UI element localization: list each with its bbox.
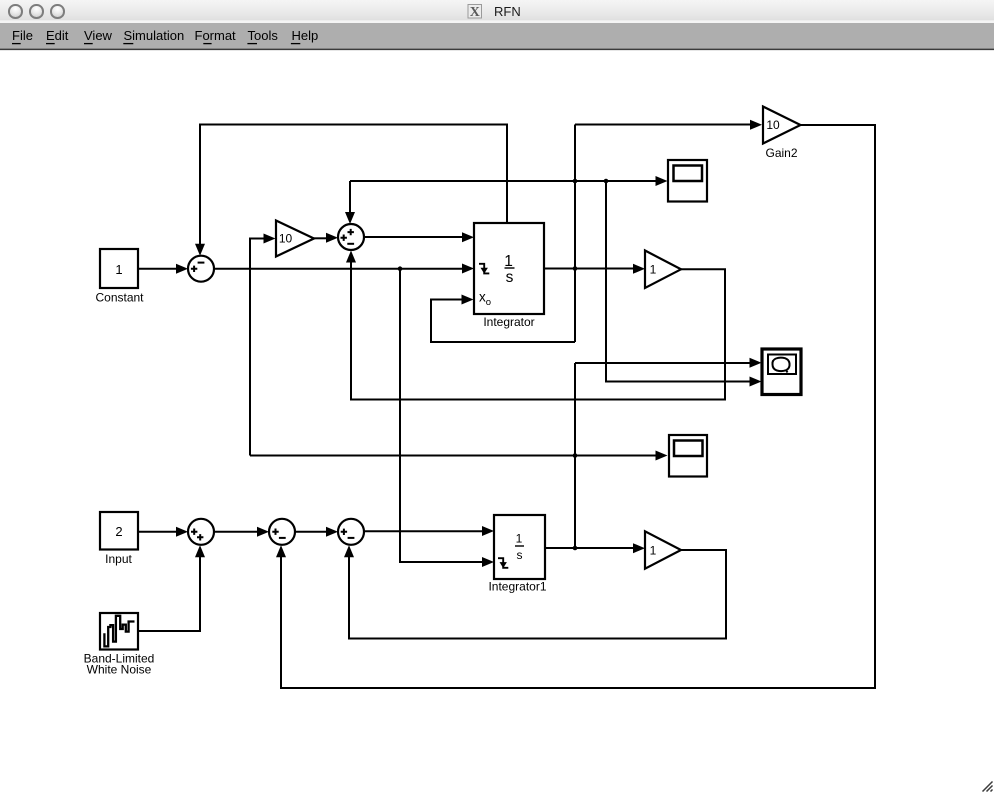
wire Sum2 output to Integrator port1 bbox=[364, 232, 474, 242]
window icon X bbox=[468, 5, 482, 21]
wire Integrator1 output to Gain3 bbox=[545, 543, 645, 553]
net x575 vertical lower segment bbox=[574, 363, 576, 548]
block Band-Limited White Noise bbox=[84, 613, 155, 676]
svg-text:White Noise: White Noise bbox=[87, 662, 152, 676]
sum S1 bbox=[188, 256, 214, 282]
menu Help bbox=[291, 28, 318, 44]
svg-text:Constant: Constant bbox=[95, 291, 144, 305]
wire Gain3 output loop to Sum6 south bbox=[344, 545, 726, 638]
window title bar bbox=[0, 0, 994, 23]
svg-text:o: o bbox=[486, 297, 491, 308]
wire Constant to Sum1 bbox=[138, 264, 188, 274]
svg-text:Gain2: Gain2 bbox=[765, 146, 797, 160]
block Integrator U1 bbox=[474, 223, 544, 329]
wire Input to Sum4 bbox=[138, 527, 188, 537]
wire Band-Limited White Noise to Sum4 south bbox=[138, 545, 205, 631]
junction dot Sum1 output at x400 bbox=[398, 266, 403, 271]
menu Simulation bbox=[123, 28, 184, 44]
block Constant bbox=[95, 249, 144, 305]
svg-text:X: X bbox=[470, 5, 480, 20]
block Integrator1 U2 bbox=[488, 515, 546, 594]
wire x575 bottom to Integrator x0 port bbox=[431, 295, 575, 343]
junction dot y181 at x575 bbox=[573, 179, 578, 184]
wire Sum6 to Integrator1 port1 bbox=[364, 526, 494, 536]
wire from y455 net up to Gain input bbox=[250, 234, 276, 456]
wire Sum2 north input from y181 net bbox=[345, 181, 355, 224]
scope Scope2 bbox=[669, 435, 707, 477]
svg-text:Integrator1: Integrator1 bbox=[488, 580, 546, 594]
wire y181 net to Scope1 bbox=[350, 176, 668, 186]
sum S5 bbox=[269, 519, 295, 545]
scope Scope1 bbox=[668, 160, 707, 202]
svg-text:Edit: Edit bbox=[46, 28, 69, 43]
svg-text:Input: Input bbox=[105, 552, 132, 566]
wire x606 down to XY Graph input2 bbox=[606, 181, 762, 387]
svg-text:10: 10 bbox=[279, 232, 293, 246]
svg-text:View: View bbox=[84, 28, 113, 43]
wire Sum5 to Sum6 bbox=[295, 527, 338, 537]
svg-text:Help: Help bbox=[292, 28, 319, 43]
gain G2 value 1 (middle) bbox=[645, 251, 681, 289]
menu bar bbox=[0, 23, 994, 49]
wire branch x400 down to Integrator1 port2 bbox=[400, 269, 494, 567]
svg-text:1: 1 bbox=[650, 543, 657, 557]
menu Format bbox=[195, 28, 237, 44]
svg-text:Simulation: Simulation bbox=[124, 28, 185, 43]
wire x575 top to Gain2 bbox=[575, 120, 762, 130]
svg-text:Format: Format bbox=[195, 28, 237, 43]
svg-text:Tools: Tools bbox=[248, 28, 279, 43]
svg-text:1: 1 bbox=[115, 262, 122, 277]
sum S6 bbox=[338, 519, 364, 545]
gain Gain2 value 10 bbox=[763, 107, 801, 161]
sum S2 bbox=[338, 224, 364, 250]
svg-text:1: 1 bbox=[650, 263, 657, 277]
menu View bbox=[84, 28, 113, 44]
wire Integrator state port to Sum1 north bbox=[195, 125, 507, 256]
wire y455 net to Scope2 bbox=[250, 451, 668, 461]
menubar bottom border bbox=[0, 48, 994, 50]
resize grip bbox=[983, 782, 993, 792]
sum S4 bbox=[188, 519, 214, 545]
svg-text:1: 1 bbox=[516, 532, 523, 546]
svg-text:Integrator: Integrator bbox=[483, 315, 534, 329]
net x575 vertical upper segment bbox=[574, 125, 576, 343]
junction dot Integrator1 output at x575 bbox=[573, 546, 578, 551]
block Input constant 2 bbox=[100, 512, 138, 566]
svg-text:10: 10 bbox=[766, 118, 780, 132]
svg-text:s: s bbox=[517, 548, 523, 562]
menu Tools bbox=[247, 28, 278, 44]
svg-text:File: File bbox=[12, 28, 33, 43]
svg-text:RFN: RFN bbox=[494, 4, 521, 19]
wire Integrator output to Gain1 bbox=[544, 264, 645, 274]
svg-text:1: 1 bbox=[504, 253, 513, 270]
junction dot y181 at x606 bbox=[604, 179, 609, 184]
wire Gain to Sum2 bbox=[314, 233, 339, 243]
svg-text:2: 2 bbox=[115, 524, 122, 539]
wire x575 lower net to XY Graph input1 bbox=[575, 358, 762, 368]
gain G3 value 1 (lower) bbox=[645, 531, 681, 568]
block XY Graph bbox=[762, 349, 801, 395]
junction dot Integrator output at x575 bbox=[573, 266, 578, 271]
junction dot y455 at x575 bbox=[573, 453, 578, 458]
wire Gain2 output outer loop to Sum5 south bbox=[276, 125, 875, 688]
wire Sum1 output to Integrator port2 bbox=[214, 264, 474, 274]
wire Sum4 to Sum5 bbox=[214, 527, 269, 537]
menu File bbox=[12, 28, 33, 44]
gain G1 value 10 bbox=[276, 221, 314, 257]
wire Gain1 output loop to Sum2 south bbox=[346, 251, 725, 400]
menu Edit bbox=[46, 28, 69, 44]
svg-text:s: s bbox=[506, 269, 514, 286]
